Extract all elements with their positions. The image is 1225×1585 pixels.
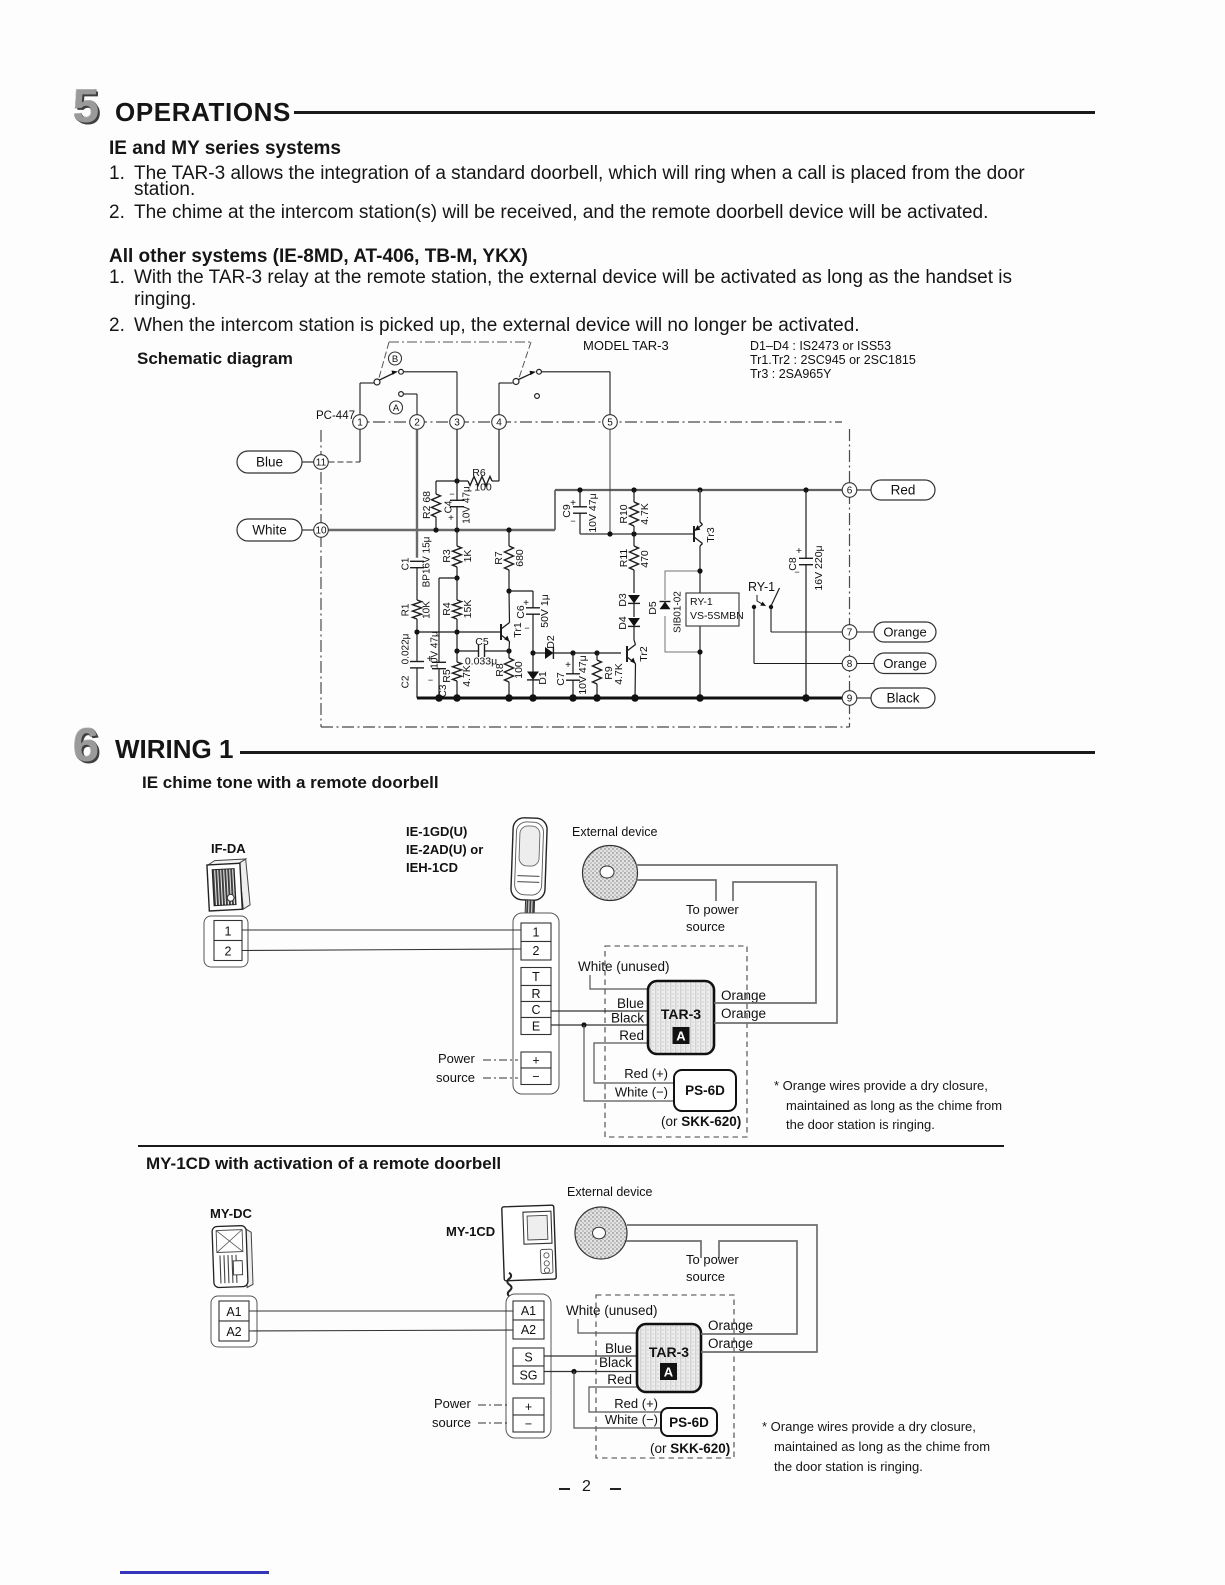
svg-text:D5: D5 (647, 601, 659, 615)
capacitor C3 (427, 631, 449, 698)
svg-text:R3: R3 (441, 549, 453, 563)
svg-text:A: A (393, 403, 400, 414)
node line C9/R10/Tr3 base (580, 531, 694, 536)
svg-text:15K: 15K (462, 600, 474, 619)
svg-text:MY-DC: MY-DC (210, 1206, 253, 1221)
svg-text:source: source (686, 919, 725, 934)
svg-text:Blue: Blue (617, 996, 644, 1011)
svg-text:SG: SG (519, 1368, 537, 1382)
Black wire (551, 1011, 648, 1028)
section number 6 (73, 721, 99, 768)
door station terminal box 2 (211, 1296, 257, 1347)
svg-text:Red (+): Red (+) (624, 1066, 668, 1081)
svg-text:680: 680 (514, 549, 526, 567)
svg-text:0.022μ: 0.022μ (401, 633, 412, 664)
labels (211, 824, 658, 875)
White supply rail (thick gray) (329, 527, 556, 532)
svg-text:IEH-1CD: IEH-1CD (406, 860, 458, 875)
svg-text:10V 47μ: 10V 47μ (462, 486, 473, 524)
intercom terminal box 2 (506, 1294, 551, 1438)
svg-text:−: − (570, 516, 575, 526)
capacitor C7 (555, 653, 589, 698)
Blue lead oval (237, 451, 314, 473)
White(-) wire (584, 1025, 674, 1101)
monitor station MY-1CD icon (502, 1205, 557, 1297)
svg-text:−: − (532, 1070, 539, 1084)
svg-text:source: source (686, 1269, 725, 1284)
svg-text:2: 2 (533, 944, 540, 958)
svg-text:A: A (664, 1365, 674, 1380)
pin 2 (410, 415, 425, 430)
svg-text:SIB01-02: SIB01-02 (673, 591, 684, 633)
svg-text:10V 47μ: 10V 47μ (577, 655, 589, 694)
svg-text:Orange: Orange (721, 988, 766, 1003)
Red lead oval (857, 480, 935, 500)
dashed boundary 2 (596, 1295, 734, 1458)
capacitor C9 (561, 490, 599, 534)
svg-text:Red: Red (619, 1028, 644, 1043)
external device power lead (636, 880, 716, 901)
svg-text:Black: Black (886, 691, 919, 706)
wire White rail up to top rail (554, 490, 556, 530)
svg-text:MODEL TAR-3: MODEL TAR-3 (583, 338, 669, 353)
ground/common bus (417, 694, 842, 702)
or SKK-620 (2) (650, 1441, 730, 1456)
svg-text:Red: Red (891, 483, 916, 498)
dashed boundary TAR-3/PS-6D (605, 946, 747, 1137)
external device power lead 2 (626, 1241, 701, 1258)
svg-text:White (unused): White (unused) (578, 959, 670, 974)
svg-text:1: 1 (225, 925, 232, 939)
svg-text:6: 6 (847, 486, 853, 497)
dash-dot boundary box PC-447 unit (321, 422, 850, 727)
svg-text:R1: R1 (401, 603, 412, 616)
svg-text:White (−): White (−) (615, 1085, 668, 1100)
svg-text:11: 11 (316, 458, 327, 469)
Black wire 2 (544, 1355, 637, 1374)
resistor R9 (593, 653, 626, 698)
Black lead oval (857, 688, 935, 708)
svg-text:1K: 1K (462, 550, 474, 563)
svg-text:Black: Black (611, 1011, 644, 1026)
resistor R11 (618, 534, 651, 593)
pin 5 (603, 415, 618, 430)
svg-text:50V 1μ: 50V 1μ (539, 594, 551, 628)
ganged-switch linkage (dash-dot) (379, 342, 531, 378)
resistor R2 (421, 481, 441, 530)
wire door 1 to terminal 1 (242, 929, 521, 931)
wire C3 tap (439, 578, 457, 662)
svg-text:5: 5 (607, 418, 613, 429)
svg-text:R10: R10 (618, 504, 630, 523)
svg-text:A1: A1 (521, 1304, 536, 1318)
capacitor C5 line (454, 632, 511, 668)
White(-) wire 2 (574, 1372, 661, 1429)
svg-text:470: 470 (639, 550, 651, 568)
svg-text:10: 10 (315, 526, 327, 537)
svg-text:R7: R7 (493, 551, 505, 565)
svg-text:7: 7 (847, 628, 853, 639)
pin 3 (450, 415, 465, 430)
svg-text:D3: D3 (617, 593, 629, 607)
svg-text:IE-2AD(U) or: IE-2AD(U) or (406, 842, 483, 857)
capacitor C6 branch (509, 591, 551, 653)
node R3/R4/C3 (454, 575, 459, 580)
wire contact to pin 7 (771, 609, 842, 632)
svg-text:+: + (525, 1400, 532, 1414)
svg-text:Power: Power (438, 1051, 476, 1066)
svg-text:8: 8 (847, 659, 853, 670)
diode D2 line (530, 635, 621, 659)
surge absorber SIB01-02 box (665, 571, 700, 652)
svg-text:C: C (531, 1003, 540, 1017)
door station IF-DA icon (207, 859, 251, 911)
section number 5 (73, 82, 99, 129)
svg-text:A2: A2 (226, 1325, 241, 1339)
relay contact RY-1 (748, 580, 780, 609)
svg-text:Orange: Orange (883, 625, 926, 640)
Orange wire lower 2 (627, 1225, 817, 1352)
external device (doorbell) 2 (575, 1207, 627, 1259)
svg-text:4: 4 (496, 418, 502, 429)
rail from pin 2 down (416, 430, 418, 558)
Orange wire lower (636, 865, 837, 1023)
Red wire (594, 1028, 674, 1083)
svg-text:1: 1 (533, 926, 540, 940)
svg-text:A: A (676, 1029, 686, 1044)
heading WIRING 1 (115, 736, 233, 762)
svg-text:Orange: Orange (721, 1006, 766, 1021)
svg-text:C2: C2 (401, 675, 412, 688)
svg-text:−: − (524, 623, 529, 633)
svg-text:1: 1 (357, 418, 363, 429)
svg-text:Tr1: Tr1 (512, 622, 524, 638)
transistor Q Tr3 (PNP) (694, 490, 717, 593)
capacitor C2 (401, 633, 425, 688)
parts list (750, 339, 916, 381)
svg-text:C5: C5 (475, 636, 489, 648)
power source leaders 2 (432, 1396, 510, 1430)
svg-text:−: − (449, 489, 454, 499)
wire contact to pin 8 (754, 609, 842, 664)
svg-text:TAR-3: TAR-3 (649, 1344, 689, 1360)
svg-text:C4: C4 (444, 500, 455, 513)
svg-text:source: source (436, 1070, 475, 1085)
capacitor C8 (787, 490, 825, 698)
or SKK-620 (661, 1114, 741, 1129)
svg-text:White (unused): White (unused) (566, 1303, 658, 1318)
pin 1 (353, 415, 368, 430)
svg-text:(or SKK-620): (or SKK-620) (661, 1114, 741, 1129)
diode D5 (647, 600, 671, 616)
svg-text:BP16V 15μ: BP16V 15μ (422, 536, 433, 587)
intercom terminal box (513, 913, 559, 1094)
svg-text:100: 100 (513, 661, 525, 679)
relay unit TAR-3 (2) (637, 1324, 701, 1392)
svg-text:RY-1: RY-1 (690, 596, 713, 608)
svg-text:A1: A1 (226, 1305, 241, 1319)
svg-text:External device: External device (567, 1185, 653, 1199)
door station terminal box (204, 916, 248, 967)
resistor R8 (494, 651, 525, 698)
White (-) label 2 (605, 1412, 658, 1427)
To power source label (686, 902, 739, 934)
transistor Q Tr1 (501, 588, 524, 651)
svg-text:C7: C7 (555, 672, 567, 686)
White (unused) wire 2 (566, 1303, 658, 1333)
pin 7 (842, 625, 857, 640)
wire A2-A2 (249, 1330, 513, 1331)
svg-text:−: − (794, 567, 799, 577)
node PC-447 label (316, 410, 355, 422)
capacitor C4 (444, 430, 473, 531)
svg-text:PS-6D: PS-6D (685, 1083, 725, 1098)
pin 6 (842, 483, 857, 498)
pin 9 (842, 691, 857, 706)
svg-text:+: + (448, 513, 454, 524)
svg-text:MY-1CD: MY-1CD (446, 1224, 495, 1239)
svg-text:16V 220μ: 16V 220μ (813, 545, 825, 590)
contact B wire to pin 3 (404, 372, 458, 415)
S2 contact wire to pin 5 (542, 372, 611, 415)
svg-text:D1–D4 : IS2473 or ISS53: D1–D4 : IS2473 or ISS53 (750, 339, 891, 353)
pin 4 (492, 415, 507, 430)
svg-text:source: source (432, 1415, 471, 1430)
svg-text:R11: R11 (618, 549, 630, 568)
resistor R7 (493, 530, 526, 591)
svg-text:IE-1GD(U): IE-1GD(U) (406, 824, 467, 839)
svg-text:External device: External device (572, 825, 658, 839)
resistor R10 (618, 490, 651, 534)
wire pin11 to pin1 (329, 430, 361, 463)
heading OPERATIONS (115, 99, 291, 125)
wire pin5 down (609, 430, 611, 535)
svg-text:A2: A2 (521, 1323, 536, 1337)
svg-text:9: 9 (847, 694, 853, 705)
svg-text:10K: 10K (422, 601, 433, 619)
svg-text:R8: R8 (494, 663, 506, 677)
svg-text:−: − (525, 1417, 532, 1431)
svg-text:Blue: Blue (256, 455, 283, 470)
svg-text:+: + (570, 498, 576, 509)
Orange wire upper 2 (701, 1241, 797, 1334)
svg-text:VS-5SMBN: VS-5SMBN (690, 610, 744, 622)
relay coil RY-1 VS-5SMBN box (686, 593, 744, 626)
decorative blue mark (120, 1571, 269, 1574)
svg-text:TAR-3: TAR-3 (661, 1006, 701, 1022)
external device (doorbell) (583, 846, 638, 901)
svg-text:−: − (428, 675, 433, 685)
svg-text:PC-447: PC-447 (316, 410, 355, 422)
svg-text:+: + (523, 598, 529, 609)
Orange wire upper (714, 882, 816, 1003)
svg-text:Orange: Orange (708, 1336, 753, 1351)
resistor R1 (401, 600, 433, 619)
wire relay to bus (697, 626, 702, 698)
pin 10 (302, 529, 314, 531)
svg-text:Orange: Orange (883, 656, 926, 671)
White (unused) wire (578, 959, 670, 989)
Red wire 2 (589, 1372, 661, 1412)
contact A and wire to pin 2 (399, 392, 417, 415)
svg-text:Blue: Blue (605, 1341, 632, 1356)
svg-text:4.7K: 4.7K (461, 665, 473, 687)
svg-text:R: R (531, 987, 540, 1001)
node line R2/C4/R6 (436, 478, 468, 483)
svg-text:Tr1.Tr2 : 2SC945 or 2SC1815: Tr1.Tr2 : 2SC945 or 2SC1815 (750, 353, 916, 367)
wire C1 to R1 (416, 568, 418, 600)
svg-text:3: 3 (454, 418, 460, 429)
svg-text:To power: To power (686, 1252, 739, 1267)
svg-text:S: S (524, 1350, 532, 1364)
node B (389, 352, 402, 365)
svg-text:100: 100 (474, 482, 492, 494)
svg-text:RY-1: RY-1 (748, 580, 775, 594)
switch S2 (pole from pin 4) (499, 369, 541, 415)
White lead oval (237, 519, 302, 541)
capacitor C1 (401, 536, 433, 587)
wire A1-A1 (249, 1310, 513, 1312)
svg-text:(or SKK-620): (or SKK-620) (650, 1441, 730, 1456)
wire door 2 to terminal 2 (242, 949, 521, 951)
svg-text:R5: R5 (441, 669, 453, 683)
relay unit TAR-3 (648, 981, 714, 1054)
Orange lead oval (pin8) (857, 653, 936, 674)
pin 8 (842, 656, 857, 671)
diode D3 (617, 593, 640, 617)
svg-text:10V 47μ: 10V 47μ (587, 493, 599, 532)
switch S1 (pole from pin 1, contacts B/A) (360, 369, 403, 415)
svg-text:D2: D2 (545, 635, 557, 649)
svg-text:White: White (252, 523, 287, 538)
svg-text:10V 47μ: 10V 47μ (430, 631, 441, 669)
svg-text:Red: Red (607, 1372, 632, 1387)
svg-text:D4: D4 (617, 616, 629, 630)
svg-text:+: + (532, 1053, 539, 1067)
svg-text:R6: R6 (472, 467, 486, 479)
Blue wire (551, 996, 648, 1011)
svg-text:4.7K: 4.7K (639, 503, 651, 525)
svg-text:+: + (796, 545, 802, 557)
power supply PS-6D (674, 1070, 736, 1111)
svg-text:Tr3 : 2SA965Y: Tr3 : 2SA965Y (750, 367, 832, 381)
svg-text:R4: R4 (441, 602, 453, 616)
svg-text:T: T (532, 970, 540, 984)
svg-text:Tr3: Tr3 (705, 527, 717, 543)
schematic title MODEL TAR-3 (583, 338, 669, 353)
svg-text:B: B (392, 354, 398, 365)
labels (210, 1185, 653, 1239)
Orange lead oval (pin7) (857, 622, 936, 642)
svg-text:R2 68: R2 68 (421, 491, 433, 519)
svg-text:4.7K: 4.7K (613, 663, 625, 685)
Blue wire 2 (544, 1341, 637, 1356)
transistor Q Tr2 (627, 640, 650, 698)
resistor R4 (441, 578, 474, 632)
svg-text:IF-DA: IF-DA (211, 841, 246, 856)
node A (390, 401, 403, 414)
svg-text:White (−): White (−) (605, 1412, 658, 1427)
svg-text:To power: To power (686, 902, 739, 917)
resistor R6 (468, 430, 499, 494)
Red (+) label (624, 1066, 668, 1081)
door station MY-DC icon (212, 1225, 253, 1288)
top rail to pin 6 (555, 487, 842, 492)
power supply PS-6D (2) (661, 1408, 717, 1436)
svg-text:Red (+): Red (+) (614, 1396, 658, 1411)
resistor R3 (441, 530, 474, 578)
wire C2 to bus (416, 668, 418, 698)
svg-text:E: E (532, 1019, 540, 1033)
svg-text:Power: Power (434, 1396, 472, 1411)
svg-text:D1: D1 (537, 671, 549, 685)
Red (+) label 2 (614, 1396, 658, 1411)
White (-) label (615, 1085, 668, 1100)
resistor R5 (441, 651, 473, 698)
svg-text:Tr2: Tr2 (638, 646, 650, 662)
svg-text:2: 2 (414, 418, 420, 429)
base line Tr1 (417, 629, 501, 634)
svg-text:Black: Black (599, 1355, 632, 1370)
svg-text:PS-6D: PS-6D (669, 1415, 709, 1430)
pin 11 (314, 455, 329, 470)
svg-text:Orange: Orange (708, 1318, 753, 1333)
svg-text:C1: C1 (401, 557, 412, 570)
diode D4 (617, 616, 640, 640)
power source leaders (436, 1051, 518, 1085)
wire R1 to C2 (414, 619, 419, 661)
To power source label 2 (686, 1252, 739, 1284)
handset icon IE-1GD (510, 817, 547, 913)
diode D1 (527, 653, 549, 698)
svg-text:2: 2 (225, 945, 232, 959)
svg-text:+: + (565, 660, 571, 671)
